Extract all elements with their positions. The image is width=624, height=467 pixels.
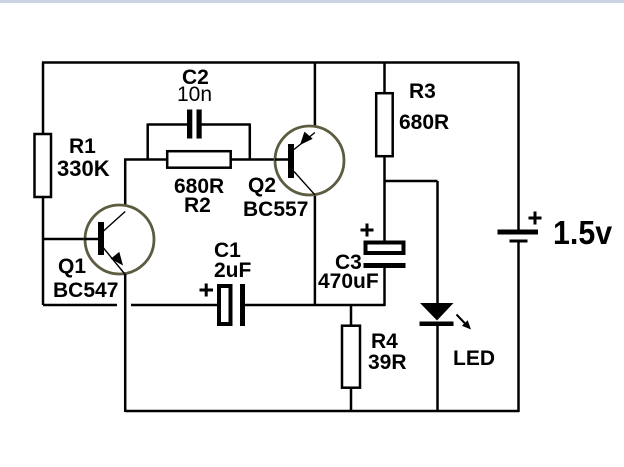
wire C2 row left [148,123,188,126]
battery B1 [498,212,542,243]
wire bottom rail [125,410,519,413]
wire Q2 collector drop [314,194,317,305]
label 2uF [214,260,251,281]
wire Q1 emitter drop [124,274,127,412]
wire R3 bottom lead [383,156,386,241]
label 330K [57,158,110,180]
wire LED bottom drop [436,326,439,412]
wire R3 top lead [383,63,386,94]
label 39R [368,352,407,373]
label Q1 [58,256,86,277]
label BC547 [53,280,118,301]
wire Q1 base lead [43,238,98,241]
label R4 [371,331,398,352]
wire C3 bottom lead [383,268,386,306]
label 680R of R3 [399,112,449,133]
label 1.5v [553,216,612,249]
label 680R of R2 [174,176,224,197]
wire R2 row [124,158,289,161]
wire C1 row right segment [245,304,385,307]
wire battery bottom lead [517,242,520,412]
label C1 [214,240,241,261]
wire C2 left jog [146,124,149,160]
wire R4 top lead [350,305,353,326]
label 10n [177,84,212,105]
resistor R2 [167,151,231,168]
label Q2 [248,175,276,196]
wire C2 right jog [249,124,252,160]
label R2 [184,195,211,216]
wire left vertical [42,63,45,306]
wire Q2 emitter riser [314,63,317,134]
wire top rail [42,61,519,64]
label 470uF [318,271,379,292]
label R1 [69,136,96,157]
label R3 [409,81,436,102]
resistor R4 [342,326,360,388]
wire C2 row right [201,123,250,126]
wire C1 row left segment [43,304,117,307]
resistor R1 [35,134,52,197]
label LED [453,348,495,369]
transistor Q2 [275,126,344,195]
LED D1 [420,303,472,330]
transistor Q1 [84,205,154,275]
wire R4 bottom lead [350,387,353,412]
label BC557 [243,199,308,220]
wire Q1 collector riser [124,160,127,213]
capacitor C1 [200,284,246,327]
wire C1 row mid segment [131,304,217,307]
wire branch to LED [385,180,438,183]
label C3 [335,252,362,273]
resistor R3 [376,93,393,156]
capacitor C3 [361,224,406,269]
wire LED top drop [436,181,439,305]
wire battery top lead [517,63,520,231]
label C2 [182,67,209,88]
capacitor C2 [187,110,202,139]
